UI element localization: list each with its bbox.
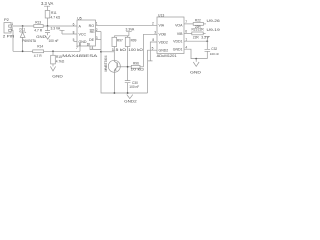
- wire VCC: [62, 33, 77, 35]
- node cap rail junction: [127, 92, 129, 94]
- svg-text:GND: GND: [52, 75, 63, 79]
- IC U13 ADuM1201 isolator: [152, 14, 188, 58]
- svg-text:R13: R13: [35, 21, 41, 25]
- node D11 bottom junction: [22, 50, 24, 52]
- power 3.3 V right: [201, 35, 210, 41]
- svg-text:VDD2: VDD2: [159, 41, 168, 45]
- wire GND2 pin down: [148, 50, 158, 93]
- svg-text:R11: R11: [51, 11, 57, 15]
- wire P2 pin2 down: [11, 31, 13, 52]
- wire RO long line to isolator VIA: [96, 24, 158, 26]
- svg-text:GND2: GND2: [159, 49, 169, 53]
- svg-text:1.5 kΩ: 1.5 kΩ: [112, 48, 127, 52]
- wire DI pin down-right: [90, 46, 101, 50]
- svg-text:MAX485ESA: MAX485ESA: [62, 54, 98, 58]
- wire B pin down: [79, 46, 81, 51]
- svg-text:4.7 R: 4.7 R: [34, 54, 42, 58]
- svg-text:GND: GND: [36, 35, 46, 39]
- node A-line / D11 junction: [22, 25, 24, 27]
- node RE/DE junction: [100, 51, 102, 53]
- ground GND2: [124, 95, 137, 104]
- svg-text:C32: C32: [211, 47, 217, 51]
- node 4.7k B junction: [52, 50, 54, 52]
- svg-text:3.3 VA: 3.3 VA: [41, 1, 53, 6]
- svg-text:10 kΩ: 10 kΩ: [130, 68, 144, 72]
- capacitor C11 100 nF (VCC decoupling): [45, 26, 58, 43]
- svg-text:VOB: VOB: [159, 33, 167, 37]
- svg-text:1: 1: [185, 37, 187, 41]
- connector P2: [3, 17, 15, 38]
- svg-text:8: 8: [152, 38, 154, 42]
- svg-text:3: 3: [154, 31, 156, 35]
- svg-text:P6KE6TA: P6KE6TA: [22, 39, 37, 43]
- wire RE/DE/DI tie down to GND2 rail: [101, 32, 148, 94]
- resistor R96 10 kΩ (base): [130, 61, 144, 71]
- svg-text:6: 6: [185, 30, 187, 34]
- power 3.3VA mid: [126, 28, 136, 36]
- resistor R23 22R (VIB series): [192, 28, 206, 40]
- ground (logic side): [190, 59, 201, 75]
- svg-text:U9-19: U9-19: [207, 28, 220, 32]
- svg-text:R97: R97: [117, 39, 123, 43]
- IC U5 MAX485ESA transceiver: [62, 16, 98, 57]
- resistor R13 4.7 R (A-line series): [34, 21, 43, 33]
- power 3.3 VA (VCC pin): [51, 26, 65, 34]
- svg-text:3.3VA: 3.3VA: [126, 28, 136, 32]
- svg-text:RO: RO: [89, 24, 95, 28]
- svg-text:R22: R22: [195, 18, 201, 22]
- svg-text:R23: R23: [192, 28, 198, 32]
- ground (B bias): [50, 66, 63, 78]
- node base/100k junction: [127, 66, 129, 68]
- svg-text:3.3 V: 3.3 V: [201, 35, 209, 39]
- wire DE stub: [96, 39, 102, 41]
- svg-text:VDD1: VDD1: [173, 40, 182, 44]
- node VDD1 junction: [206, 40, 208, 42]
- svg-text:GND2: GND2: [124, 100, 137, 104]
- svg-text:RE: RE: [90, 30, 96, 34]
- wire B-rail right: [44, 50, 80, 52]
- svg-text:7: 7: [185, 20, 187, 24]
- svg-text:4.7kΩ: 4.7kΩ: [56, 60, 65, 64]
- resistor R15 4.7kΩ (B-line bias): [51, 51, 65, 66]
- wire VIB: [184, 32, 192, 34]
- svg-text:DI: DI: [87, 42, 90, 46]
- svg-text:6: 6: [73, 22, 75, 26]
- svg-text:4.7 R: 4.7 R: [34, 28, 42, 32]
- resistor R11 4.7 kΩ (A-line pullup): [45, 11, 60, 27]
- svg-text:22R: 22R: [193, 35, 200, 39]
- svg-text:4.7 kΩ: 4.7 kΩ: [51, 15, 61, 19]
- wire junction to collector: [101, 51, 114, 53]
- svg-text:GND1: GND1: [173, 48, 183, 52]
- wire B-rail left: [13, 50, 33, 52]
- svg-text:100 nF: 100 nF: [129, 85, 139, 89]
- wire A-line to MAX485 pin A: [43, 25, 77, 27]
- svg-text:100 nF: 100 nF: [49, 39, 59, 43]
- svg-text:MMBT3904: MMBT3904: [104, 55, 108, 71]
- wire pullup rail: [114, 35, 129, 37]
- resistor R99 100 kΩ: [125, 36, 143, 81]
- wire A-line from P2 pin1: [11, 25, 34, 27]
- wire RE stub: [96, 31, 102, 33]
- capacitor C30 100 nF (field side): [125, 81, 139, 93]
- svg-text:ADuM1201: ADuM1201: [157, 54, 177, 58]
- node 4.7k pullup junction: [47, 25, 49, 27]
- svg-text:4: 4: [185, 45, 187, 49]
- svg-text:VIB: VIB: [177, 32, 183, 36]
- node emitter rail junction: [114, 92, 116, 94]
- svg-text:3.3 VA: 3.3 VA: [51, 26, 61, 30]
- svg-text:VIA: VIA: [159, 24, 165, 28]
- svg-text:8: 8: [73, 30, 75, 34]
- wire VOB up: [144, 34, 158, 67]
- svg-text:GND: GND: [190, 71, 201, 75]
- svg-text:VOA: VOA: [175, 24, 183, 28]
- power 3.3VA top-left: [41, 1, 53, 11]
- node GND1 rail junction: [195, 58, 197, 60]
- ground (cap GND): [36, 35, 50, 39]
- diode D11 TVS: [19, 26, 37, 51]
- svg-text:P2: P2: [4, 17, 10, 22]
- wire VDD1: [184, 40, 207, 42]
- svg-text:100 nF: 100 nF: [210, 52, 220, 56]
- svg-text:R14: R14: [37, 44, 43, 48]
- svg-text:2: 2: [152, 22, 154, 26]
- svg-text:5: 5: [152, 46, 154, 50]
- capacitor C32 100 nF (logic side): [205, 41, 220, 58]
- svg-text:R15: R15: [56, 55, 62, 59]
- wire VDD2: [148, 42, 157, 61]
- svg-text:1: 1: [11, 22, 13, 26]
- svg-text:R99: R99: [131, 39, 137, 43]
- svg-text:7: 7: [76, 46, 78, 50]
- wire GND1: [184, 49, 207, 58]
- transistor Q9 MMBT3904: [104, 52, 132, 93]
- wire VOA: [184, 23, 193, 25]
- svg-text:R96: R96: [133, 61, 139, 65]
- svg-text:100 kΩ: 100 kΩ: [128, 48, 143, 52]
- resistor R22 22R (VOA series): [193, 18, 206, 29]
- resistor R14 4.7 R (B-line series): [33, 44, 44, 57]
- svg-text:VCC: VCC: [79, 32, 87, 36]
- svg-text:DE: DE: [89, 38, 95, 42]
- resistor R97 1.5 kΩ: [112, 36, 127, 52]
- svg-text:U9-26: U9-26: [207, 19, 220, 23]
- svg-text:22R: 22R: [198, 28, 205, 32]
